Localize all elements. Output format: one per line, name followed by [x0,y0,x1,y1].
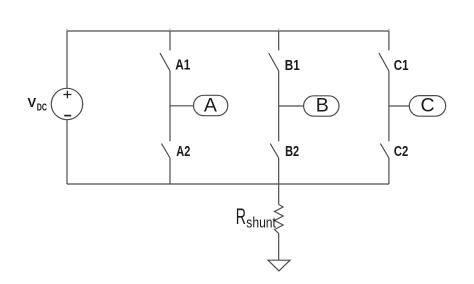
wire bottom rail [67,183,389,185]
svg-text:V: V [28,95,37,110]
wire B leg lower [278,71,280,141]
switch A2 blade [162,144,171,158]
wire C leg bottom [388,158,390,184]
switch B1 blade [269,53,279,71]
voltage source plus sign [63,91,71,99]
ground [268,260,290,271]
node B stadium [304,96,339,116]
wire node C stub [389,105,409,107]
wire top rail [67,30,389,32]
wire shunt upper [278,184,280,205]
wire node A stub [170,105,194,107]
node A stadium [194,95,228,115]
svg-text:B2: B2 [285,144,299,160]
svg-text:C: C [421,94,435,116]
voltage source V_DC circle [51,88,82,119]
wire left rail lower segment [66,120,68,184]
wire overshoot tick A leg top [169,29,171,31]
wire A leg bottom [169,158,171,184]
wire overshoot tick top-right corner [388,29,390,31]
wire A leg upper [169,31,171,50]
wire node B stub [279,105,304,107]
svg-text:C2: C2 [394,144,408,160]
wire C leg lower [388,71,390,141]
wire B leg bottom [278,158,280,184]
svg-text:A: A [204,94,217,116]
wire overshoot tick B leg top [278,29,280,31]
wire left rail upper segment [66,31,68,88]
switch C1 blade [379,53,389,71]
svg-text:DC: DC [37,102,47,113]
wire C leg upper [388,31,390,50]
wire A leg lower [169,71,171,141]
switch A1 blade [160,53,170,71]
svg-text:A2: A2 [176,144,190,160]
voltage source minus sign [64,115,71,117]
resistor R_shunt zigzag [275,205,284,234]
svg-text:C1: C1 [394,58,409,74]
switch B2 blade [270,144,279,158]
svg-text:A1: A1 [175,58,190,74]
svg-text:B: B [316,95,329,117]
svg-text:shunt: shunt [246,215,276,232]
wire B leg upper [278,31,280,50]
svg-text:R: R [236,204,246,229]
node C stadium [409,96,445,117]
wire shunt lower [278,234,280,261]
wire overshoot tick top-left corner [66,29,68,31]
switch C2 blade [380,144,389,158]
svg-text:B1: B1 [285,58,300,74]
